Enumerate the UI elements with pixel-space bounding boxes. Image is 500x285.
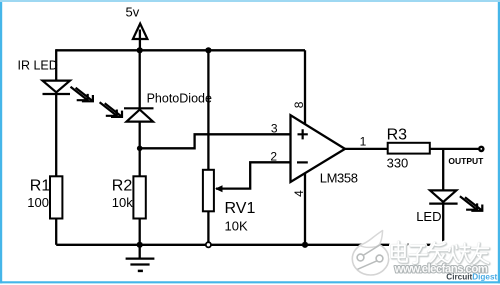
op-amp plus input marking — [298, 129, 308, 139]
potentiometer RV1 — [203, 170, 223, 212]
wire: output branch down to LED — [442, 149, 444, 191]
resistor R2 — [133, 176, 145, 218]
svg-text:IR LED: IR LED — [18, 58, 58, 72]
svg-text:PhotoDiode: PhotoDiode — [147, 91, 212, 105]
wire: RV1 rail from top rail down to RV1 — [207, 50, 209, 170]
wire: LED cathode down to bottom rail — [442, 204, 444, 245]
wire: R1 bottom to bottom rail — [55, 218, 57, 245]
photodiode D2 — [124, 108, 154, 121]
IR LED emission arrows — [71, 87, 94, 103]
wire: node A to op-amp pin 3 (with jog) — [140, 134, 291, 148]
wire: IR LED cathode down to R1 — [55, 94, 57, 177]
svg-text:3: 3 — [271, 122, 278, 136]
svg-text:8: 8 — [292, 101, 306, 108]
wire: node A down to R2 — [139, 148, 141, 176]
svg-text:R3: R3 — [387, 126, 408, 143]
svg-text:5v: 5v — [126, 5, 140, 20]
svg-text:330: 330 — [387, 155, 409, 170]
svg-text:LM358: LM358 — [320, 171, 358, 186]
wire: bottom rail horizontal — [56, 244, 443, 246]
resistor R3 — [388, 143, 430, 154]
open junction circle bottom rail / RV1 — [206, 242, 211, 247]
watermark elecfans logo — [352, 231, 388, 276]
wire: R3 to output terminal — [430, 148, 480, 150]
svg-text:10k: 10k — [112, 195, 133, 210]
op-amp U1 LM358 — [291, 115, 346, 182]
photodiode incident arrows — [100, 102, 123, 118]
junction dot bottom rail / op-amp pin 4 — [302, 242, 308, 248]
wire: RV1 wiper to op-amp pin 2 — [216, 162, 291, 188]
wire: mid rail 5v junction down to photodiode — [139, 50, 141, 108]
wire: top 5V rail horizontal — [56, 49, 305, 51]
svg-text:R1: R1 — [30, 177, 51, 194]
svg-text:R2: R2 — [112, 177, 133, 194]
svg-text:100: 100 — [27, 195, 49, 210]
svg-text:10K: 10K — [225, 219, 248, 234]
junction dot top rail / 5v / photodiode rail — [137, 47, 143, 53]
ground symbol — [126, 245, 155, 271]
junction dot bottom rail / ground — [137, 242, 143, 248]
output terminal dot — [478, 146, 485, 153]
wire: op-amp pin 1 output to R3 — [345, 148, 388, 150]
wire: left rail from top rail to IR LED anode — [55, 49, 57, 80]
resistor R1 — [50, 176, 62, 218]
svg-text:OUTPUT: OUTPUT — [448, 156, 484, 166]
LED D3 output indicator — [429, 190, 457, 203]
junction dot top rail / RV1 rail — [205, 47, 211, 53]
wire: photodiode anode down to node A — [139, 122, 141, 149]
svg-text:LED: LED — [416, 209, 441, 224]
svg-text:CircuitDigest: CircuitDigest — [446, 273, 497, 282]
wire: RV1 bottom to bottom rail — [207, 211, 209, 245]
svg-text:4: 4 — [292, 190, 306, 197]
wire: op-amp pin 8 to top rail — [304, 50, 306, 125]
LED emission arrows — [460, 196, 483, 212]
wire: op-amp pin 4 to bottom rail — [304, 173, 306, 245]
svg-text:1: 1 — [360, 135, 367, 149]
svg-text:2: 2 — [270, 150, 277, 164]
svg-text:RV1: RV1 — [225, 200, 256, 217]
wire: R2 bottom to bottom rail — [139, 218, 141, 245]
IR LED D1 — [43, 81, 71, 94]
op-amp minus input marking — [297, 161, 308, 163]
page border frame — [0, 0, 2, 283]
node A junction dot (photodiode / R2 / pin3) — [137, 146, 143, 152]
power symbol 5v arrow — [133, 24, 148, 50]
